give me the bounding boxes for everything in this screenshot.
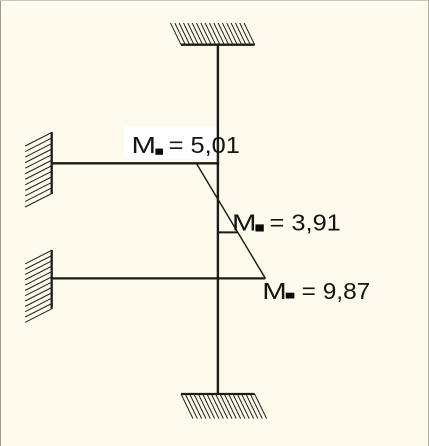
- fixed support bottom: baseline: [181, 393, 255, 395]
- svg-text:M: M: [262, 278, 286, 305]
- label M=9,87 text: [262, 278, 370, 305]
- frame border top edge: [0, 0, 429, 2]
- vertical column member: [217, 45, 219, 394]
- fixed support top: hatching: [171, 23, 255, 45]
- label M=5,01 text: [131, 132, 239, 159]
- svg-text:= 5,01: = 5,01: [169, 133, 240, 159]
- svg-text:= 3,91: = 3,91: [270, 210, 341, 236]
- fixed support lower-left: wall line: [51, 250, 53, 309]
- frame border left edge: [0, 0, 2, 446]
- fixed support top: baseline: [181, 44, 255, 46]
- moment diagram diagonal line: [196, 163, 265, 278]
- fixed support lower-left: hatching: [25, 250, 52, 322]
- upper beam member: [51, 162, 219, 164]
- lower beam member: [51, 277, 265, 279]
- fixed support upper-left: wall line: [51, 132, 53, 194]
- svg-text:M: M: [232, 209, 256, 236]
- fixed support bottom: hatching: [181, 394, 267, 419]
- fixed support upper-left: hatching: [25, 133, 52, 208]
- moment diagram tick at node 3,91: [218, 231, 238, 233]
- svg-text:= 9,87: = 9,87: [302, 278, 371, 304]
- label M=3,91 text: [232, 209, 341, 236]
- label M=5,01 white background box: [125, 127, 219, 159]
- svg-text:M: M: [131, 132, 155, 159]
- frame border right edge: [428, 0, 429, 446]
